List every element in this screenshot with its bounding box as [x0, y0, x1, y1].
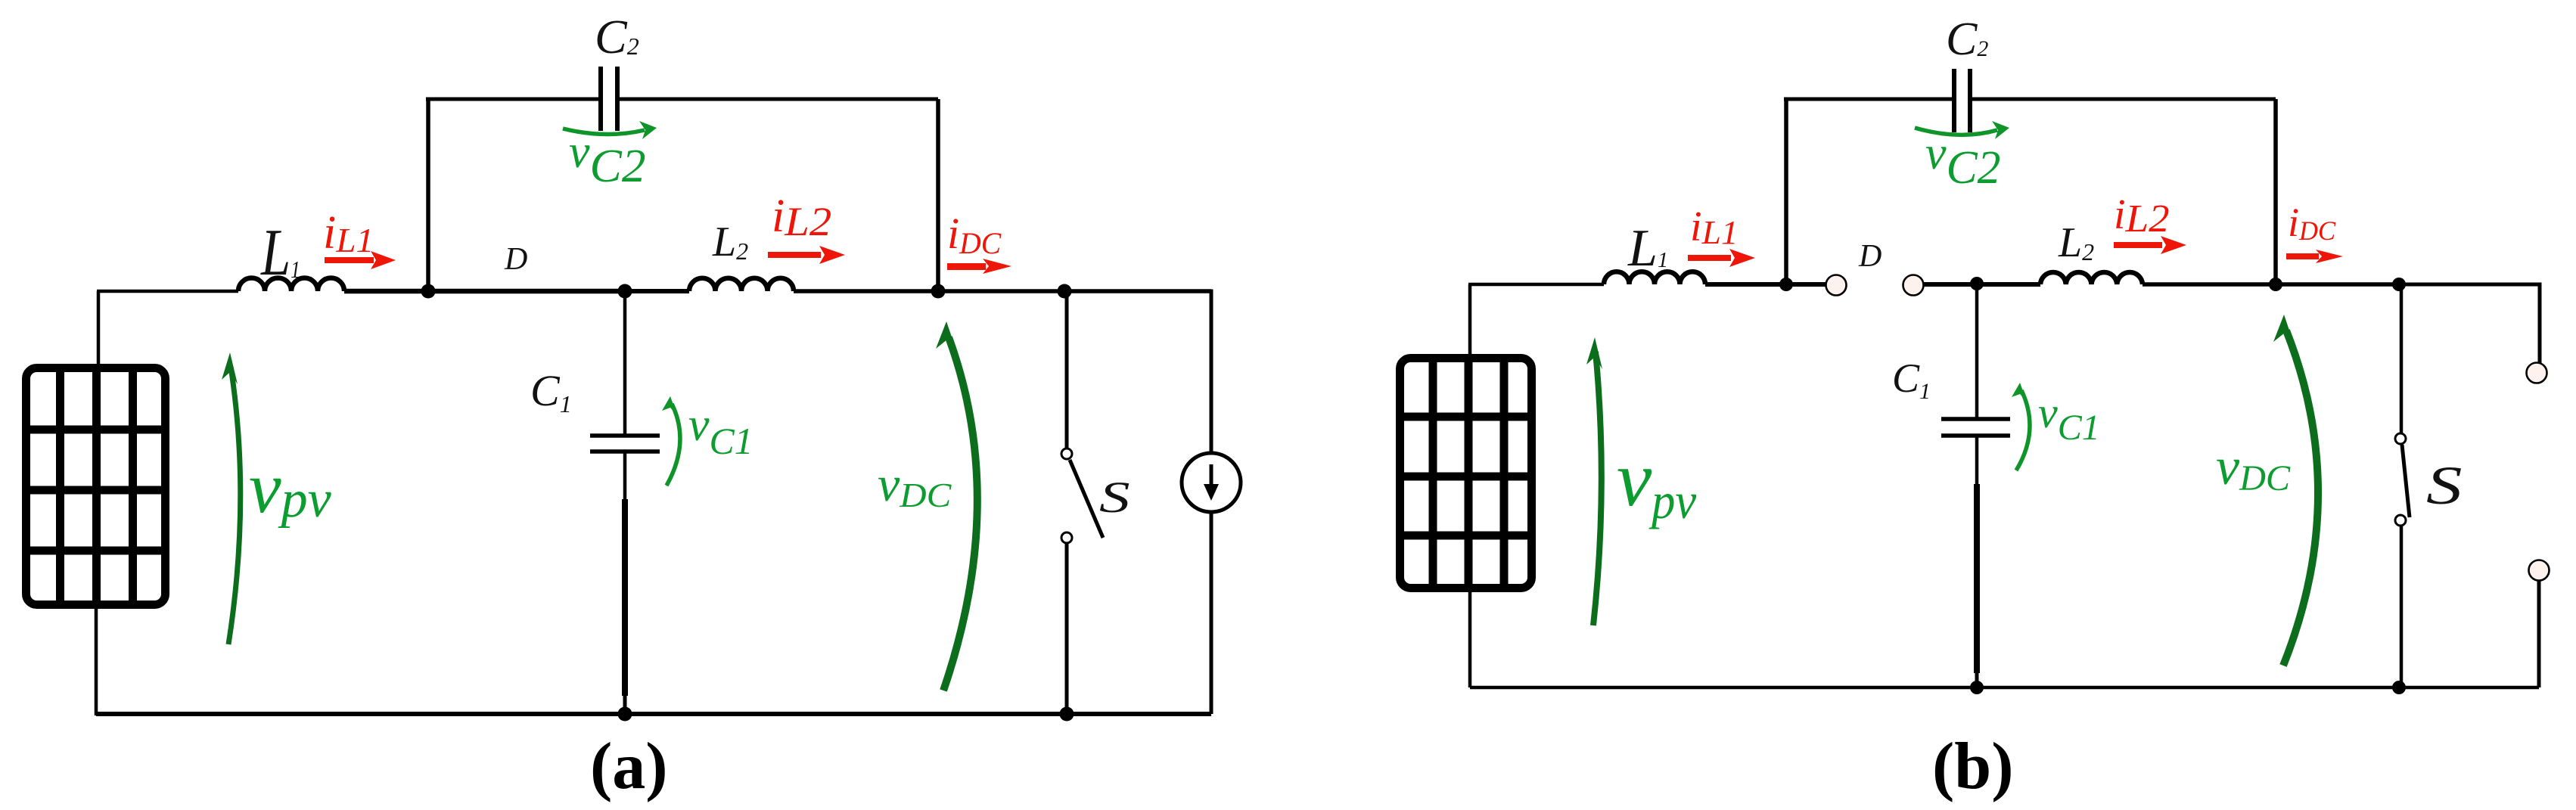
- wire switch bottom (b): [2400, 526, 2404, 687]
- svg-text:(b): (b): [1932, 730, 2014, 803]
- wire output top (b): [2399, 284, 2540, 363]
- arrow vDC (a): [943, 337, 977, 691]
- switch S contact top (a): [1061, 448, 1072, 459]
- wire node to L2 (a): [625, 289, 689, 293]
- wire C1 riser (b): [1975, 284, 1979, 420]
- node at switch junction top (a): [1058, 284, 1072, 299]
- svg-text:C1: C1: [530, 366, 572, 417]
- svg-text:L2: L2: [712, 219, 748, 265]
- capacitor C2 (a): [601, 67, 617, 131]
- svg-text:iL1: iL1: [323, 207, 374, 259]
- svg-text:vC1: vC1: [2038, 388, 2100, 448]
- svg-text:D: D: [1858, 239, 1882, 274]
- node at C1 junction (a): [618, 284, 632, 299]
- wire left rail top (a): [97, 291, 101, 364]
- wire L1 to node (b): [1705, 282, 1827, 287]
- svg-text:vDC: vDC: [2216, 438, 2291, 498]
- arrow vDC (b): [2283, 331, 2318, 666]
- svg-text:vpv: vpv: [249, 447, 332, 529]
- svg-text:L1: L1: [260, 216, 300, 290]
- svg-text:iDC: iDC: [2288, 200, 2336, 246]
- node at C1 junction (b): [1970, 277, 1984, 290]
- node at DC rail (b): [2269, 278, 2282, 291]
- svg-text:C1: C1: [1892, 355, 1931, 404]
- wire D right to C1 node (b): [1924, 282, 2040, 287]
- svg-text:S: S: [1099, 473, 1130, 522]
- svg-text:D: D: [504, 242, 527, 277]
- inductor L1 (b): [1604, 272, 1705, 284]
- arrow iL2 (b): [2114, 236, 2186, 254]
- node switch bottom (a): [1060, 707, 1074, 722]
- capacitor C1 (b): [1941, 419, 2010, 436]
- wire top right (b): [1972, 98, 2276, 101]
- wire main left (a): [97, 290, 238, 293]
- wire switch bottom (a): [1065, 543, 1069, 714]
- svg-text:vC2: vC2: [1925, 128, 2001, 194]
- PV panel (a): [23, 365, 168, 607]
- wire C2 right riser (a): [936, 99, 940, 291]
- switch S blade (b): [2402, 445, 2410, 517]
- wire left rail top (b): [1468, 284, 1472, 354]
- wire D segment (a): [428, 289, 625, 294]
- inductor L2 (a): [689, 278, 794, 291]
- svg-text:C2: C2: [1946, 14, 1988, 65]
- switch S contact bottom (a): [1061, 532, 1072, 543]
- node C1 bottom (a): [618, 707, 632, 722]
- arrow iDC (b): [2286, 250, 2343, 263]
- PV panel (b): [1397, 355, 1534, 591]
- wire right rail top (a): [1064, 291, 1211, 453]
- wire C1 stub upper (b): [1975, 436, 1979, 484]
- wire C1 to bottom (a): [623, 696, 627, 714]
- wire bottom rail (b): [1470, 686, 2539, 690]
- arrow iL1 (a): [325, 251, 396, 269]
- wire C2 right riser (b): [2273, 99, 2278, 284]
- wire top left (b): [1784, 98, 1952, 101]
- capacitor C1 (a): [590, 436, 660, 452]
- arrow vC1 (a): [667, 404, 680, 486]
- output terminal bottom (b): [2529, 560, 2550, 581]
- wire C1 stub upper (a): [623, 452, 627, 499]
- svg-text:S: S: [2426, 456, 2463, 516]
- arrow iL2 (a): [768, 246, 845, 264]
- wire left rail bottom (b): [1468, 592, 1472, 687]
- inductor L1 (a): [238, 278, 344, 292]
- node at switch junction (b): [2392, 278, 2406, 291]
- wire top left (a): [426, 98, 598, 101]
- arrow iDC (a): [947, 259, 1011, 274]
- wire switch top (a): [1065, 291, 1069, 448]
- node at L1/C2 junction (b): [1779, 278, 1793, 291]
- svg-text:L2: L2: [2058, 219, 2094, 266]
- current source I1 (a): [1182, 453, 1241, 512]
- svg-text:vDC: vDC: [878, 457, 952, 514]
- wire C2 left riser (a): [426, 99, 430, 293]
- wire right rail bottom (a): [1210, 512, 1213, 714]
- output terminal top (b): [2527, 363, 2547, 383]
- wire C2 left riser (b): [1784, 99, 1788, 287]
- wire top right (a): [620, 98, 938, 101]
- svg-text:(a): (a): [590, 730, 668, 803]
- arrow vC2 (a): [563, 129, 645, 135]
- arrow vpv (b): [1593, 352, 1602, 625]
- svg-text:iL2: iL2: [772, 191, 831, 244]
- wire switch top (b): [2400, 284, 2404, 433]
- wire L1 to node D1 (a): [344, 289, 428, 294]
- diode D contact left (b): [1826, 275, 1847, 296]
- svg-text:vC1: vC1: [688, 399, 754, 462]
- switch S blade (a): [1070, 460, 1103, 538]
- node at L1/C2 junction (a): [421, 284, 436, 299]
- arrow vC2 (b): [1915, 128, 1997, 135]
- svg-text:vpv: vpv: [1617, 436, 1697, 529]
- wire C1 to bottom (b): [1975, 673, 1979, 687]
- node C1 bottom (b): [1970, 681, 1984, 694]
- wire C1 stub lower thick (a): [622, 499, 628, 696]
- arrow vC1 (b): [2016, 390, 2030, 470]
- arrow vpv (a): [228, 367, 241, 644]
- switch S contact top (b): [2395, 433, 2406, 444]
- capacitor C2 (b): [1954, 69, 1970, 132]
- svg-text:iL1: iL1: [1690, 203, 1739, 251]
- diode D contact right (b): [1903, 275, 1924, 296]
- switch S contact bottom (b): [2395, 515, 2406, 526]
- inductor L2 (b): [2040, 272, 2143, 284]
- wire L2 to right (b): [2143, 282, 2399, 287]
- svg-text:iDC: iDC: [947, 209, 1002, 260]
- wire C1 riser (a): [623, 291, 627, 436]
- wire left rail bottom (a): [95, 609, 98, 715]
- wire bottom rail (a): [96, 712, 1211, 716]
- node at DC rail (a): [931, 284, 946, 299]
- wire L2 to right rail (a): [794, 289, 1211, 293]
- wire output bottom (b): [2537, 580, 2541, 687]
- wire main left (b): [1468, 283, 1604, 287]
- node switch bottom (b): [2392, 681, 2406, 694]
- svg-text:L1: L1: [1627, 219, 1668, 278]
- wire C1 stub lower thick (b): [1974, 484, 1980, 673]
- svg-text:C2: C2: [595, 10, 639, 64]
- svg-text:iL2: iL2: [2114, 191, 2170, 241]
- arrow iL1 (b): [1688, 249, 1755, 267]
